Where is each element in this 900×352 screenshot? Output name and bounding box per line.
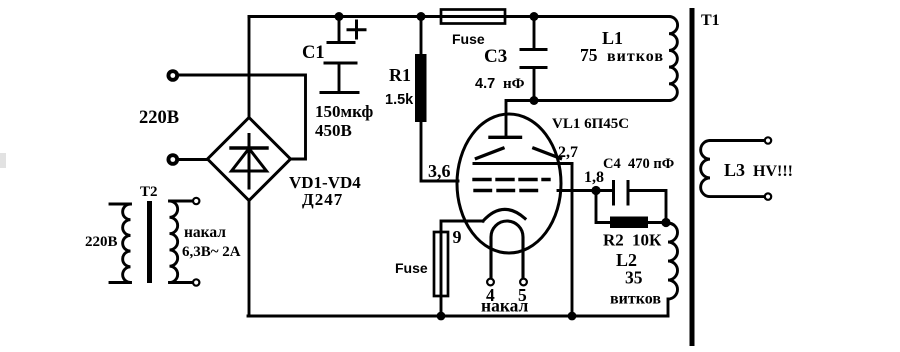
svg-text:Д247: Д247 [302,190,343,209]
wire cathode to fuse FU2 [441,221,483,232]
wire R2 right lead [648,221,666,224]
svg-text:C4 470 пФ: C4 470 пФ [603,156,674,172]
svg-text:150мкф: 150мкф [315,102,373,121]
tube control grid dashed row pins 3,6 [474,178,549,181]
svg-text:2,7: 2,7 [558,144,578,161]
svg-text:6,3В~ 2А: 6,3В~ 2А [182,244,241,260]
edge artifact [0,153,6,168]
capacitor C3 plates [521,50,546,68]
node AC input terminal 2 [167,153,180,166]
resistor R1 leads [421,17,458,181]
wire left vertical rail to bridge top [248,17,251,119]
resistor R2 body [610,217,648,229]
node T2 secondary terminal top [193,198,199,204]
tube anode plate [490,136,521,139]
svg-text:HV!!!: HV!!! [753,163,793,180]
capacitor C4 leads [596,191,666,223]
svg-text:нФ: нФ [503,76,525,92]
svg-text:Fuse: Fuse [452,31,485,47]
fuse FU1 (top) [441,10,505,24]
svg-text:35: 35 [625,268,643,288]
node junction rail/C3/L1 [530,12,539,21]
node junction C4/R2/L2 [661,218,670,227]
node junction anode/C3/L1 [530,96,539,105]
capacitor C1 plates [328,41,354,44]
resistor R1 body [415,54,427,122]
T2 secondary winding nakal [170,201,193,283]
tube heater [491,221,523,279]
svg-text:накал: накал [184,224,226,241]
svg-text:витков: витков [607,48,664,65]
node AC input terminal 1 [167,69,180,82]
node heater pin 4 [487,279,494,286]
svg-text:R1: R1 [389,65,411,85]
svg-text:накал: накал [481,296,529,316]
wire AC line 2 to bridge left corner [178,158,208,161]
svg-text:3,6: 3,6 [428,161,451,181]
svg-text:L3: L3 [724,160,745,180]
svg-text:75: 75 [580,45,598,65]
svg-text:1.5k: 1.5k [385,92,414,108]
svg-text:Fuse: Fuse [395,260,428,276]
node junction fuse FU2 / bus [437,312,446,321]
svg-text:T1: T1 [701,12,720,29]
svg-text:R2: R2 [603,231,624,250]
wire fuse FU2 through and to bus [440,232,443,316]
wire pins 1,8 to node [558,189,596,192]
inductor L2 35 vitkov [666,223,678,317]
node junction 2,7 / bus [568,312,577,321]
svg-text:L1: L1 [602,28,623,48]
node L3 terminal bottom [765,193,771,199]
plus sign of C1 [348,21,365,38]
wire top B+ rail [249,15,666,18]
node T2 secondary terminal bottom [193,279,199,285]
svg-text:9: 9 [453,227,462,247]
capacitor C4 plates [614,182,629,205]
capacitor C3 leads [533,17,536,101]
fuse FU2 (cathode) [434,232,448,296]
capacitor C1 lead from rail [338,17,341,43]
wire anode node: L1 bottom to tube anode [506,101,669,138]
svg-text:VL1 6П45С: VL1 6П45С [552,116,629,132]
svg-text:T2: T2 [140,184,158,200]
svg-text:C1: C1 [302,43,325,63]
node heater pin 5 [520,279,527,286]
svg-text:220В: 220В [85,234,118,250]
inductor L1 75 vitkov [537,17,678,101]
wire bridge bottom to ground bus [248,201,251,317]
node L3 terminal top [765,137,771,143]
tube VL1 envelope [457,114,561,253]
diode symbol inside bridge [231,135,267,189]
wire grid leak path to R2 [596,191,610,223]
svg-text:витков: витков [610,291,661,308]
wire bottom ground bus [248,315,668,318]
wire AC line 1 to bridge right corner [178,75,306,159]
bridge rectifier VD1-VD4 [208,118,291,201]
svg-text:C3: C3 [484,46,507,67]
tube screen grid line pins 2,7 [474,162,572,165]
transformer T2 core [147,201,152,283]
node junction rail/R1 [417,12,426,21]
svg-text:10К: 10К [632,231,662,250]
T2 primary winding 220V [110,204,131,283]
svg-text:450В: 450В [315,121,352,140]
svg-text:1,8: 1,8 [584,169,604,186]
node junction 1,8 / C4 / R2 [591,186,600,195]
svg-text:220В: 220В [139,108,179,128]
tube beam plates [476,148,560,158]
wire pins 2,7 down to ground bus [571,164,574,317]
transformer T1 core [690,8,695,346]
node junction rail/C1 [335,12,344,21]
inductor L3 HV winding [701,141,767,197]
tube grid dashed row pins 1,8 [475,189,544,192]
tube cathode arc [483,209,525,221]
svg-text:4.7: 4.7 [475,76,495,92]
